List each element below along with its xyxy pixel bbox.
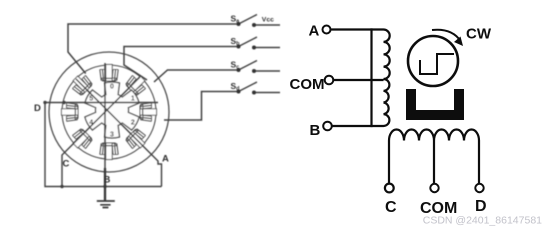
svg-text:B: B bbox=[310, 122, 321, 139]
svg-text:Sa: Sa bbox=[231, 13, 241, 24]
svg-text:3: 3 bbox=[110, 131, 114, 138]
svg-text:5: 5 bbox=[89, 95, 93, 102]
svg-text:0: 0 bbox=[110, 83, 114, 90]
svg-text:COM: COM bbox=[290, 76, 325, 93]
svg-text:Sb: Sb bbox=[231, 36, 241, 47]
svg-text:Sc: Sc bbox=[231, 59, 240, 70]
svg-text:2: 2 bbox=[131, 119, 135, 126]
svg-text:D: D bbox=[475, 198, 487, 215]
svg-text:CSDN @2401_86147581: CSDN @2401_86147581 bbox=[423, 214, 542, 226]
svg-text:4: 4 bbox=[89, 119, 93, 126]
svg-text:CW: CW bbox=[466, 26, 492, 43]
svg-text:1: 1 bbox=[131, 95, 135, 102]
svg-text:Sd: Sd bbox=[231, 81, 240, 92]
svg-text:Vcc: Vcc bbox=[262, 17, 274, 24]
svg-text:B: B bbox=[104, 175, 111, 186]
svg-text:C: C bbox=[63, 159, 70, 170]
svg-text:C: C bbox=[385, 199, 397, 216]
svg-text:A: A bbox=[162, 154, 169, 165]
svg-text:D: D bbox=[34, 103, 41, 114]
svg-text:A: A bbox=[309, 23, 320, 40]
